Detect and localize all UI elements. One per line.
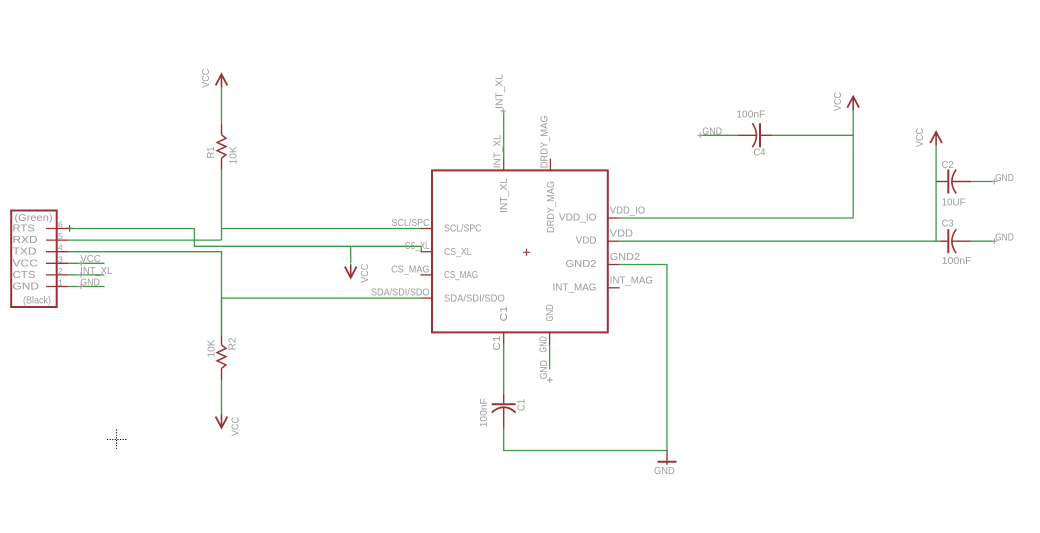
supply VCC arrow up (C2) — [930, 132, 942, 145]
svg-text:100nF: 100nF — [736, 110, 765, 121]
svg-text:GND: GND — [545, 304, 556, 321]
capacitor C4 — [737, 123, 772, 147]
connector J1 label (Green) — [15, 213, 53, 224]
label GND net (C2) — [991, 173, 1013, 185]
wire SDA/SDI/SDO — [222, 297, 422, 299]
label R1 — [206, 146, 217, 158]
svg-text:SCL/SPC: SCL/SPC — [444, 224, 482, 235]
connector J1 pin 6 (RTS) — [13, 220, 69, 235]
connector J1 label (Black) — [23, 296, 51, 307]
svg-text:INT_XL: INT_XL — [80, 266, 112, 277]
wire R2 to VCC — [221, 380, 223, 415]
svg-text:C1: C1 — [516, 398, 527, 411]
wire RXD — [69, 239, 222, 241]
wire INT_XL top — [503, 111, 505, 158]
svg-text:RTS: RTS — [13, 224, 36, 235]
ic U1 origin cross — [523, 249, 530, 256]
svg-text:VDD: VDD — [610, 229, 633, 240]
ic U1 pin CS_MAG (left) — [391, 264, 478, 281]
wire VCC vertical (C2/C3) — [935, 146, 937, 242]
label R2 — [228, 337, 239, 350]
connector J1 origin cross — [66, 225, 73, 232]
svg-text:CTS: CTS — [13, 270, 36, 281]
svg-text:SCL/SPC: SCL/SPC — [392, 218, 430, 229]
label VCC rotated — [360, 264, 371, 283]
wire INT_XL stub — [69, 274, 105, 276]
svg-text:INT_XL: INT_XL — [499, 178, 510, 213]
ic U1 pin INT_MAG (right) — [553, 275, 654, 293]
svg-text:VCC: VCC — [231, 417, 242, 436]
label C4 value — [754, 148, 766, 159]
supply VCC arrow down (CS_XL pullup) — [345, 264, 357, 277]
label C1 value — [516, 398, 527, 411]
svg-text:DRDY_MAG: DRDY_MAG — [540, 115, 551, 168]
svg-text:GND: GND — [539, 360, 550, 379]
wire C1 top — [503, 345, 505, 394]
svg-text:C4: C4 — [754, 148, 766, 159]
supply VCC arrow up (R1) — [216, 74, 228, 87]
svg-text:(Green): (Green) — [15, 213, 53, 224]
svg-text:100nF: 100nF — [942, 256, 972, 267]
supply VCC arrow up (C4) — [847, 97, 859, 110]
ic U1 pin SCL/SPC (left) — [392, 218, 482, 235]
svg-text:C3: C3 — [942, 218, 954, 229]
svg-text:GND: GND — [539, 336, 550, 352]
capacitor C1 — [492, 394, 516, 428]
wire TXD to SDA — [69, 252, 222, 336]
label GND — [78, 277, 100, 289]
ic U1 body — [432, 170, 608, 332]
svg-text:INT_MAG: INT_MAG — [553, 282, 597, 293]
ic U1 pin GND (bottom) — [539, 304, 556, 352]
label 10K (R2) — [207, 339, 218, 357]
label VCC rotated (C2) — [915, 128, 926, 147]
svg-text:R1: R1 — [206, 146, 217, 158]
ic U1 pin CS_XL (left) — [405, 241, 472, 258]
svg-text:GND: GND — [995, 173, 1014, 184]
svg-text:6: 6 — [58, 220, 63, 230]
svg-text:GND: GND — [13, 282, 40, 293]
connector J1 pin 1 (GND) — [13, 278, 69, 293]
svg-text:1: 1 — [58, 278, 63, 288]
svg-text:4: 4 — [58, 243, 63, 253]
resistor R1 — [217, 124, 226, 169]
svg-text:CS_XL: CS_XL — [444, 247, 472, 258]
svg-text:10K: 10K — [229, 146, 240, 164]
svg-text:GND2: GND2 — [566, 259, 597, 270]
ic U1 pin VDD_IO (right) — [559, 206, 646, 224]
svg-text:SDA/SDI/SDO: SDA/SDI/SDO — [371, 288, 430, 299]
label C2 value — [942, 160, 954, 171]
svg-text:RXD: RXD — [13, 235, 38, 246]
svg-text:CS_MAG: CS_MAG — [391, 264, 430, 275]
wire VCC to R1 — [221, 88, 223, 125]
label 10UF (C2) — [942, 197, 966, 208]
wire C4 left — [700, 134, 737, 136]
wire GND2 — [620, 265, 667, 451]
label VCC rotated (R1) — [201, 69, 212, 88]
wire VDD_IO — [620, 110, 854, 218]
svg-text:VCC: VCC — [833, 92, 844, 111]
ic U1 pin C1 (bottom) — [492, 305, 510, 350]
capacitor C2 — [937, 170, 972, 194]
svg-text:CS_XL: CS_XL — [405, 241, 430, 252]
ic U1 pin GND2 (right) — [566, 252, 641, 270]
svg-text:VDD_IO: VDD_IO — [559, 213, 597, 224]
svg-text:(Black): (Black) — [23, 296, 51, 307]
label 100nF (C1) — [479, 398, 490, 427]
label INT_XL — [78, 266, 112, 278]
wire C4 right — [772, 134, 853, 136]
svg-text:INT_XL: INT_XL — [492, 134, 503, 168]
sheet origin crosshair — [107, 430, 127, 450]
label GND net (C3) — [991, 233, 1013, 245]
svg-text:INT_XL: INT_XL — [495, 74, 506, 109]
svg-text:C1: C1 — [492, 335, 503, 351]
svg-text:GND: GND — [702, 126, 722, 137]
label INT_XL net — [495, 74, 506, 114]
wire SDA to R2 — [221, 298, 223, 335]
svg-text:VCC: VCC — [915, 128, 926, 147]
svg-text:2: 2 — [58, 266, 63, 276]
ic U1 pin VDD (right) — [576, 229, 633, 247]
capacitor C3 — [940, 229, 971, 253]
label GND net (IC) — [539, 360, 553, 383]
wire RTS to CS_XL — [69, 229, 422, 252]
wire C1 to GND — [504, 428, 667, 451]
svg-text:SDA/SDI/SDO: SDA/SDI/SDO — [444, 293, 505, 304]
svg-text:VCC: VCC — [360, 264, 371, 283]
wire C2 right — [971, 181, 995, 183]
svg-text:INT_MAG: INT_MAG — [610, 275, 653, 286]
svg-text:VCC: VCC — [201, 69, 212, 88]
wire SCL/SPC — [222, 228, 422, 230]
connector J1 pin 2 (CTS) — [13, 266, 69, 281]
wire R1 net vertical — [221, 170, 223, 241]
ic U1 pin INT_XL (top) — [492, 134, 510, 213]
svg-text:CS_MAG: CS_MAG — [444, 270, 478, 281]
label VCC — [78, 254, 100, 266]
svg-text:DRDY_MAG: DRDY_MAG — [546, 181, 557, 233]
svg-text:3: 3 — [58, 254, 63, 264]
svg-text:VCC: VCC — [13, 258, 39, 269]
svg-text:5: 5 — [58, 231, 63, 241]
svg-text:GND: GND — [995, 233, 1014, 244]
svg-text:C1: C1 — [499, 305, 510, 321]
svg-text:VDD: VDD — [576, 236, 597, 247]
label VCC rotated (C4) — [833, 92, 844, 111]
wire CS_XL VCC branch — [350, 246, 352, 263]
wire GND stub — [69, 286, 105, 288]
svg-text:10UF: 10UF — [942, 197, 966, 208]
ic U1 pin SDA/SDI/SDO (left) — [371, 288, 505, 305]
resistor R2 — [217, 335, 226, 379]
svg-text:C2: C2 — [942, 160, 954, 171]
svg-text:GND: GND — [654, 466, 675, 477]
svg-text:TXD: TXD — [13, 247, 37, 258]
connector J1 pin 3 (VCC) — [13, 254, 69, 269]
svg-text:100nF: 100nF — [479, 398, 490, 427]
ic U1 pin DRDY_MAG (top) — [540, 115, 557, 233]
connector J1 pin 4 (TXD) — [13, 243, 69, 258]
svg-text:GND2: GND2 — [610, 252, 641, 263]
svg-text:VDD_IO: VDD_IO — [610, 206, 646, 217]
wire GND pin stub — [549, 345, 551, 370]
wire VCC stub — [69, 262, 105, 264]
svg-text:10K: 10K — [207, 339, 218, 357]
label VCC rotated (R2) — [231, 417, 242, 436]
svg-text:R2: R2 — [228, 337, 239, 350]
ground GND symbol — [658, 451, 677, 465]
wire C3 right — [971, 240, 995, 242]
label 10K (R1) — [229, 146, 240, 164]
label 100nF (C4) — [736, 110, 765, 121]
label GND symbol — [654, 466, 675, 477]
wire C2 left — [936, 181, 937, 183]
supply VCC arrow down (R2) — [216, 414, 228, 427]
wire VDD — [620, 240, 940, 242]
label 100nF (C3) — [942, 256, 972, 267]
connector J1 pin 5 (RXD) — [13, 231, 69, 246]
connector J1 body — [11, 211, 57, 308]
label C3 value — [942, 218, 954, 229]
label GND net (C4) — [697, 126, 722, 138]
